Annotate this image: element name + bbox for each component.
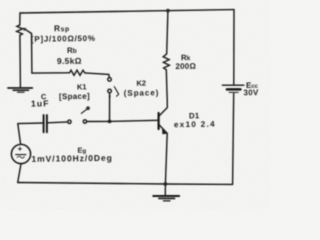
potentiometer wiper arrowhead (23, 28, 27, 32)
source Eg circle (11, 144, 30, 163)
potentiometer wiper arrow (25, 29, 32, 34)
wire K2 to base node (109, 93, 111, 122)
transistor Q1 base bar (158, 113, 160, 129)
resistor Rk (163, 54, 169, 70)
wire wiper down (31, 34, 33, 74)
potentiometer Rsp (17, 25, 23, 35)
ground bottom (153, 195, 179, 197)
wire right rail upper (233, 10, 235, 85)
source Eg mid dash (16, 154, 26, 156)
switch K1 blade (81, 109, 87, 114)
battery Ecc long plate (222, 84, 243, 86)
wire wiper to Rb (32, 72, 70, 74)
wire emitter junction to ground (164, 184, 166, 195)
switch K2 terminal bottom (108, 89, 112, 93)
wire left upper (19, 13, 21, 25)
wire capacitor to K1 (48, 121, 68, 124)
node base junction (108, 120, 112, 124)
switch K2 pivot dot (109, 95, 111, 97)
source Eg sine wave (17, 156, 24, 158)
wire Rb to corner (85, 73, 110, 77)
ground left (8, 87, 32, 89)
capacitor C plate right (46, 115, 48, 132)
wire source to bottom rail (18, 164, 21, 183)
wire Rk to top rail (167, 11, 168, 54)
wire source corner to capacitor (18, 122, 43, 125)
capacitor C plate left (43, 115, 45, 132)
node emitter junction (164, 182, 168, 186)
switch K1 terminal left (68, 120, 71, 123)
wire capacitor corner down to source (18, 124, 21, 145)
wire top rail (20, 10, 234, 13)
wire K1 to base node (87, 120, 110, 122)
wire pot to ground (19, 35, 22, 87)
node collector top junction (166, 9, 170, 13)
switch K2 blade (114, 87, 118, 97)
transistor Q1 collector lead (159, 100, 167, 116)
wire base node to transistor base (110, 120, 158, 121)
wire emitter down (165, 133, 167, 184)
source Eg plus sign (18, 147, 21, 150)
wire right rail lower (233, 93, 234, 184)
switch K2 terminal top (108, 78, 112, 82)
wire bottom rail (18, 183, 233, 185)
switch K1 terminal right (83, 120, 86, 123)
battery Ecc ghost plate (229, 91, 238, 93)
transistor Q1 emitter arrowhead (162, 127, 168, 134)
switch K1 blade tip (87, 107, 89, 109)
transistor Q1 emitter lead (159, 125, 167, 134)
resistor Rb (70, 70, 85, 75)
battery Ecc short plate (227, 88, 241, 91)
wire collector up to Rk (165, 70, 168, 100)
